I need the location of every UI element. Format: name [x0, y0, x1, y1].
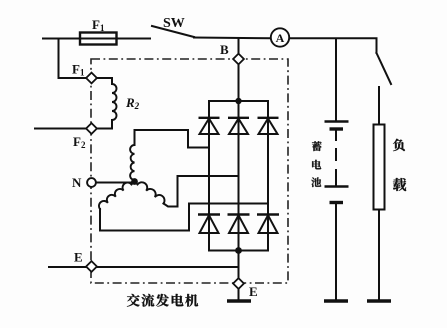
svg-text:SW: SW: [163, 16, 185, 31]
svg-text:E: E: [249, 284, 258, 299]
svg-text:B: B: [220, 42, 229, 57]
svg-text:A: A: [276, 31, 285, 45]
svg-text:E: E: [74, 250, 83, 265]
svg-text:N: N: [72, 175, 82, 190]
